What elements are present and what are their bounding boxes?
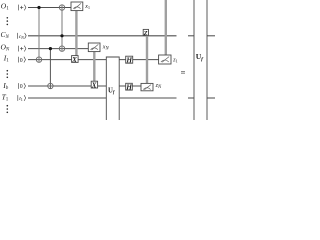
ket cN on CN [17, 33, 26, 40]
wire control line ON to Ib target [49, 49, 51, 89]
svg-text:0: 0 [20, 84, 23, 90]
svg-text:z1: z1 [172, 57, 178, 63]
wire classical xN to X gate [93, 52, 95, 82]
wire ON [28, 48, 89, 50]
wire control line CN to O1/ON targets [61, 5, 63, 52]
ket t1 on T1 [18, 95, 26, 102]
wire stub T1 into right Uf [188, 97, 195, 99]
wire classical x1 to X gate [75, 11, 77, 56]
svg-text:X: X [71, 56, 77, 64]
wire classical z1 upward [165, 0, 167, 55]
svg-text:x1: x1 [84, 4, 90, 10]
ket zero on I1 [19, 57, 26, 64]
svg-text:H: H [125, 56, 132, 65]
gate X on I1 (classically controlled by x1) [72, 56, 79, 63]
measure z1 on I1 [159, 55, 171, 64]
wire Ib [28, 85, 141, 87]
ket plus on O1 [18, 5, 26, 11]
dots below T1 [7, 105, 9, 113]
svg-text:0: 0 [20, 58, 23, 64]
wire stub T1 out of right Uf [207, 97, 215, 99]
gate X on Ib (classically controlled by xN) [91, 81, 97, 88]
measure xN on ON [88, 43, 100, 52]
wire stub CN out of right Uf [207, 35, 215, 37]
control dot on O1 [37, 6, 40, 9]
svg-text:zN: zN [155, 83, 162, 90]
svg-text:Z: Z [143, 30, 148, 37]
op box Uf right [194, 0, 207, 122]
target xor on ON [59, 46, 64, 51]
dots between I1 and Ib [7, 70, 9, 78]
ket plus on ON [18, 46, 26, 52]
target xor on I1 [36, 57, 41, 62]
target xor on O1 [59, 5, 64, 10]
gate H on I1 [126, 56, 133, 63]
control dot on ON [49, 47, 52, 50]
svg-text:xN: xN [102, 44, 110, 51]
measure zN on Ib [141, 83, 153, 90]
wire control line O1 to I1 target [38, 8, 40, 63]
dots between O1 and CN [7, 17, 9, 25]
svg-text:t1: t1 [19, 96, 23, 102]
control dot on CN [60, 34, 63, 37]
ket zero on Ib [19, 83, 26, 90]
op box Uf left [106, 57, 119, 121]
measure x1 on O1 [71, 2, 83, 11]
svg-text:cN: cN [19, 34, 24, 40]
svg-text:H: H [125, 83, 132, 92]
equals sign between circuits [181, 72, 185, 74]
wire classical zN to Z gate [146, 35, 148, 83]
wire CN [28, 35, 177, 37]
target xor on Ib [48, 83, 53, 88]
gate Z on CN (classically controlled by zN) [143, 29, 148, 35]
wire T1 [28, 97, 177, 99]
wire O1 [28, 7, 71, 9]
wire stub CN into right Uf [188, 35, 195, 37]
gate H on Ib [126, 83, 133, 90]
svg-text:X: X [91, 82, 97, 90]
wire I1 [28, 59, 159, 61]
